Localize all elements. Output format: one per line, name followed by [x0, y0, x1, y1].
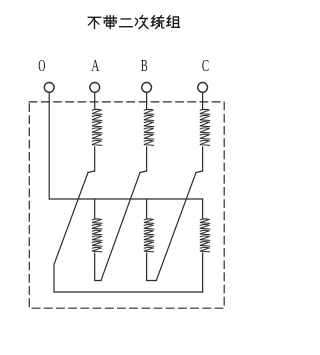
dashed enclosure — [29, 102, 224, 308]
diagonal wire A1 to bottom bus — [54, 173, 88, 293]
wire winding C2 bottom to bottom bus — [202, 253, 204, 292]
glyph 绕 — [151, 16, 164, 29]
winding B1 (upper, phase B) — [144, 109, 154, 145]
winding C1 (upper, phase C) — [200, 109, 210, 145]
wire winding B2 bottom jog to diagonal C1 — [147, 253, 157, 281]
terminal B — [142, 83, 152, 93]
winding A1 (upper, phase A) — [92, 109, 102, 145]
wire winding A2 bottom jog to diagonal B1 — [95, 253, 101, 281]
wire below winding B1 with jog — [140, 147, 147, 173]
winding B2 (lower, phase B) — [144, 219, 154, 252]
terminal C — [198, 83, 208, 93]
wire below winding A1 with jog — [88, 147, 95, 173]
title 不带二次绕组 (hand-drawn glyph strokes) — [88, 16, 179, 29]
winding A2 (lower, phase A) — [92, 219, 102, 252]
wire below winding C1 with jog — [196, 147, 203, 173]
wire A terminal to winding A1 — [94, 92, 96, 109]
diagonal wire B1 to winding A2 bottom — [101, 173, 140, 281]
wire neutral bus to winding C2 — [202, 199, 204, 219]
wire neutral bus to winding B2 — [146, 199, 148, 219]
winding C2 (lower, phase C) — [200, 219, 210, 252]
terminal O — [44, 83, 54, 93]
svg-text:A: A — [91, 56, 100, 75]
wire C terminal to winding C1 — [202, 92, 204, 109]
terminal A — [90, 83, 100, 93]
bottom bus — [54, 291, 203, 293]
svg-text:B: B — [141, 56, 148, 75]
glyph 二 — [120, 19, 133, 27]
wire O terminal to neutral bus — [48, 92, 50, 199]
glyph 组 — [167, 16, 180, 28]
neutral bus — [49, 198, 202, 200]
glyph 带 — [104, 16, 117, 29]
svg-text:C: C — [202, 56, 209, 75]
wire B terminal to winding B1 — [146, 92, 148, 109]
svg-text:O: O — [38, 56, 45, 75]
glyph 次 — [135, 16, 148, 29]
glyph 不 — [88, 17, 100, 28]
diagonal wire C1 to winding B2 bottom — [156, 173, 196, 281]
wire neutral bus to winding A2 — [94, 199, 96, 219]
